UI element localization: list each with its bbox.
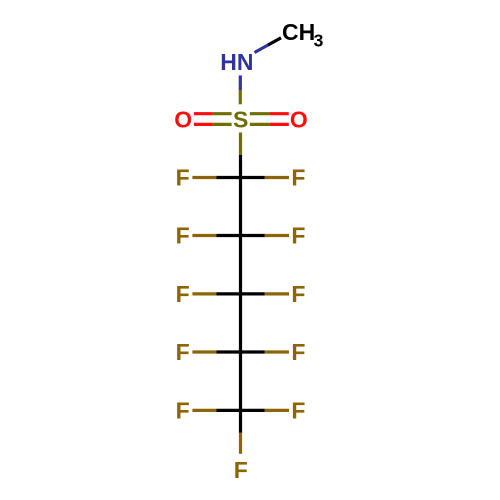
svg-text:CH: CH: [282, 19, 315, 45]
svg-text:F: F: [291, 223, 305, 249]
C4 left F bond: [192, 350, 216, 353]
C1 right F bond: [241, 176, 265, 179]
svg-text:O: O: [290, 107, 308, 133]
C3 right F bond: [241, 292, 265, 295]
svg-text:F: F: [176, 165, 190, 191]
double bond S=O right, lower line: [250, 123, 270, 126]
bond N-S (blue half): [239, 75, 242, 90]
svg-text:F: F: [234, 457, 248, 483]
C3 left F bond: [192, 292, 216, 295]
svg-text:F: F: [291, 398, 305, 424]
C4 right F bond: [241, 350, 265, 353]
bond C5-F bottom (black half): [239, 410, 242, 432]
bond S-C1 (olive half): [239, 133, 242, 156]
svg-text:F: F: [176, 223, 190, 249]
bond C5-F bottom (golden half): [239, 433, 242, 454]
C2 right F bond: [241, 234, 265, 237]
svg-text:S: S: [233, 107, 248, 133]
C5 left F bond: [192, 409, 216, 412]
bond N-CH3 (blue half): [255, 45, 268, 52]
svg-text:F: F: [176, 339, 190, 365]
C2 left F bond: [192, 234, 216, 237]
double bond S=O left, lower line: [194, 123, 213, 126]
svg-text:O: O: [174, 107, 192, 133]
chain C1-C5 vertical wire: [239, 178, 242, 411]
svg-text:F: F: [291, 339, 305, 365]
bond N-CH3 (black half): [268, 38, 281, 45]
svg-text:F: F: [291, 165, 305, 191]
C1 left F bond: [192, 176, 216, 179]
bond N-S (olive half): [239, 90, 242, 104]
bond S-C1 (black half): [239, 155, 242, 178]
C5 right F bond: [241, 409, 265, 412]
svg-text:3: 3: [314, 30, 324, 50]
svg-text:F: F: [291, 281, 305, 307]
double bond S=O right, upper line: [250, 112, 270, 115]
svg-text:HN: HN: [220, 49, 253, 75]
double bond S=O left, upper line: [194, 112, 213, 115]
svg-text:F: F: [176, 398, 190, 424]
svg-text:F: F: [176, 281, 190, 307]
